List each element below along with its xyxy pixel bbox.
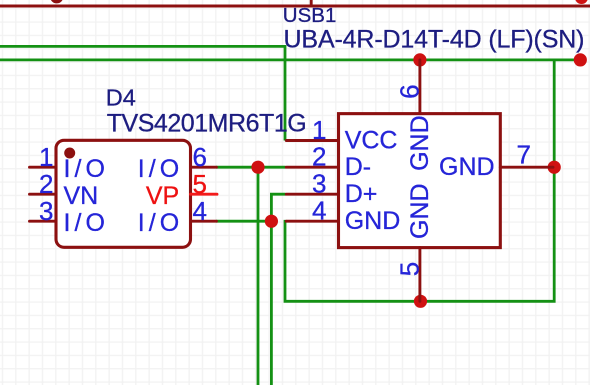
svg-text:4: 4	[312, 196, 326, 226]
wire: VBUS green horizontal then down to USB pin1	[0, 46, 285, 140]
USB1 pin 1 stub	[286, 139, 338, 142]
junction bottom rail at USB pin5	[414, 295, 427, 308]
svg-text:GND: GND	[439, 153, 495, 181]
junction on D- wire	[251, 161, 264, 174]
USB1 pin 2 stub	[286, 166, 338, 169]
svg-text:VCC: VCC	[345, 126, 398, 154]
wire: from D4 pin4 to D+ junction	[216, 220, 271, 223]
svg-text:7: 7	[517, 140, 531, 170]
svg-text:GND: GND	[406, 115, 434, 171]
wire: short vertical stub joining top line	[310, 0, 313, 7]
svg-text:VP: VP	[146, 182, 179, 210]
svg-text:D-: D-	[345, 153, 371, 181]
D4 pin 3 stub	[30, 220, 57, 223]
svg-text:1: 1	[39, 142, 53, 172]
svg-text:5: 5	[193, 169, 207, 199]
junction terminal dot right end of line B	[574, 53, 587, 66]
svg-text:5: 5	[394, 262, 424, 276]
component D4 TVS4201MR6T1G body	[56, 140, 191, 247]
component USB1 body	[339, 114, 501, 248]
svg-text:GND: GND	[345, 207, 401, 235]
junction on line B above USB pin 6	[413, 53, 426, 66]
svg-text:UBA-4R-D14T-4D (LF)(SN): UBA-4R-D14T-4D (LF)(SN)	[284, 26, 585, 54]
junction dot (clipped, top-right)	[575, 0, 588, 4]
D4 pin 2 stub	[30, 193, 57, 196]
svg-text:TVS4201MR6T1G: TVS4201MR6T1G	[107, 110, 307, 138]
USB1 pin 3 stub	[286, 193, 338, 196]
USB1 pin 7 stub (right)	[500, 166, 553, 169]
svg-text:1: 1	[312, 115, 326, 145]
wire: green horizontal B across page	[0, 59, 580, 62]
junction dot (clipped, top-left)	[50, 0, 63, 3]
svg-text:D4: D4	[106, 85, 136, 111]
svg-text:GND: GND	[406, 183, 434, 239]
D4 pin 1 stub	[30, 166, 57, 169]
svg-text:3: 3	[312, 169, 326, 199]
svg-text:2: 2	[39, 169, 53, 199]
svg-text:D+: D+	[345, 180, 378, 208]
D4 pin 5 stub (highlighted red)	[191, 193, 218, 196]
USB1 pin 6 stub (top)	[418, 60, 421, 114]
svg-text:VN: VN	[64, 182, 99, 210]
wire: D+ from USB pin3 left then down off-screen	[271, 194, 285, 385]
wire: top horizontal dark red bus line	[0, 5, 590, 8]
USB1 pin 4 stub	[286, 220, 338, 223]
svg-text:6: 6	[193, 142, 207, 172]
svg-text:6: 6	[394, 84, 424, 98]
D4 pin 4 stub	[191, 220, 217, 223]
svg-text:4: 4	[193, 196, 207, 226]
svg-text:2: 2	[312, 142, 326, 172]
wire: D- branch down off-screen	[257, 167, 260, 385]
svg-text:USB1: USB1	[283, 4, 337, 27]
USB1 pin 5 stub (bottom)	[418, 248, 421, 302]
wire: D- horizontal from D4 pin6 to USB pin2	[216, 166, 285, 169]
junction right vertical at pin7	[548, 161, 561, 174]
svg-text:3: 3	[39, 196, 53, 226]
junction D+ branch	[265, 215, 278, 228]
D4 pin-1 marker dot	[64, 148, 75, 159]
D4 pin 6 stub	[191, 166, 217, 169]
wire: GND loop from USB pin4 down, along bottom, up right side to line B	[285, 60, 554, 301]
